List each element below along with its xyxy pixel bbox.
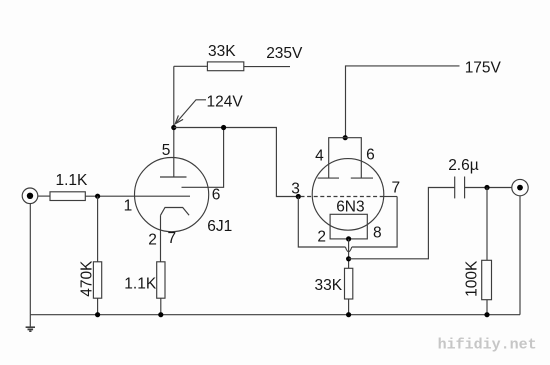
svg-text:6J1: 6J1 bbox=[207, 218, 232, 235]
wire output node down to R6 bbox=[486, 188, 488, 261]
grid line of 6N3 (dashed) bbox=[301, 196, 384, 198]
plate bar of 6J1 (pin 5) bbox=[160, 176, 187, 178]
svg-text:5: 5 bbox=[162, 142, 171, 159]
wire 175V supply bbox=[346, 66, 460, 138]
resistor R5 33K (cathode load) bbox=[345, 268, 353, 299]
node 124V (B+ of 6J1) bbox=[171, 125, 176, 130]
resistor R3 33K (plate load) bbox=[207, 62, 243, 71]
wire input jack to ground rail bbox=[29, 204, 31, 315]
svg-text:100K: 100K bbox=[464, 260, 481, 297]
wire plate loop of 6N3 (pins 4,6) bbox=[329, 138, 362, 178]
svg-text:3: 3 bbox=[291, 181, 300, 198]
svg-text:8: 8 bbox=[373, 225, 382, 242]
node cathode output tap bbox=[346, 256, 351, 261]
svg-text:1.1K: 1.1K bbox=[56, 172, 89, 189]
svg-text:6: 6 bbox=[212, 187, 221, 204]
svg-text:hifidiy.net: hifidiy.net bbox=[438, 337, 537, 354]
svg-text:235V: 235V bbox=[266, 45, 303, 62]
node cathode junction bbox=[346, 236, 351, 241]
wire R3 left to B+ vertical bbox=[174, 65, 208, 67]
wire cathode down through hop to R5 bbox=[348, 239, 350, 268]
output jack J2 bbox=[512, 179, 528, 195]
node grid pin 3 bbox=[296, 194, 301, 199]
svg-text:33K: 33K bbox=[315, 277, 343, 294]
wire grid tie loop bbox=[298, 197, 345, 248]
node R6-rail bbox=[484, 312, 489, 317]
resistor R1 1.1K (grid stopper) bbox=[50, 192, 85, 201]
wire cathode tap to coupling cap bbox=[349, 188, 455, 259]
wire junction to resistor R2 bbox=[97, 196, 99, 262]
resistor R2 470K (grid leak) bbox=[93, 262, 101, 298]
plate bar pin 6 bbox=[351, 177, 373, 179]
node pin6 riser junction bbox=[221, 125, 226, 130]
node 6N3 plate bbox=[343, 135, 348, 140]
svg-text:124V: 124V bbox=[207, 93, 244, 110]
wire R6 to ground rail bbox=[486, 300, 488, 315]
wire input jack to resistor R1 bbox=[38, 195, 50, 197]
wire cathode to resistor R4 bbox=[160, 215, 162, 261]
tube U2 6N3 envelope bbox=[312, 159, 384, 231]
cathode of 6J1 (pins 2,7) bbox=[161, 208, 190, 216]
plate bar pin 4 bbox=[318, 177, 339, 179]
node R4-rail bbox=[158, 312, 163, 317]
svg-text:470K: 470K bbox=[79, 260, 96, 297]
svg-text:2: 2 bbox=[148, 232, 157, 249]
svg-text:33K: 33K bbox=[208, 43, 236, 60]
wire output jack to ground rail bbox=[519, 196, 521, 315]
node grid junction bbox=[95, 194, 100, 199]
svg-text:175V: 175V bbox=[465, 60, 502, 77]
svg-text:2: 2 bbox=[317, 229, 326, 246]
wire ground rail bbox=[30, 314, 520, 316]
node R5-rail bbox=[346, 312, 351, 317]
svg-text:1: 1 bbox=[124, 198, 133, 215]
wire hop (no connection) bbox=[345, 247, 351, 252]
resistor R6 100K (output load) bbox=[482, 260, 492, 299]
node R2-rail bbox=[95, 312, 100, 317]
svg-text:4: 4 bbox=[315, 147, 324, 164]
wire cap to output jack bbox=[465, 187, 512, 189]
wire R4 to ground rail bbox=[160, 298, 162, 315]
svg-text:6N3: 6N3 bbox=[336, 198, 364, 215]
input jack J1 bbox=[22, 188, 38, 204]
svg-text:7: 7 bbox=[168, 230, 177, 247]
node output junction bbox=[484, 185, 489, 190]
svg-text:7: 7 bbox=[392, 179, 401, 196]
wire R5 to ground rail bbox=[348, 299, 350, 315]
cathode rectangle of 6N3 (pins 2,8) bbox=[330, 214, 367, 239]
wire 124V node to 6N3 grid bbox=[174, 128, 298, 197]
wire R3 right to 235V supply bbox=[244, 66, 290, 68]
screen grid bar of 6J1 (pin 6) and wire up to node bbox=[182, 128, 224, 188]
resistor R4 1.1K (cathode) bbox=[157, 262, 165, 298]
capacitor C1 2.6u bbox=[454, 177, 456, 199]
svg-text:1.1K: 1.1K bbox=[124, 276, 157, 293]
svg-text:6: 6 bbox=[366, 146, 375, 163]
svg-text:2.6µ: 2.6µ bbox=[448, 157, 479, 174]
ground bbox=[29, 315, 31, 327]
wire B+ node down to plate pin 5 bbox=[173, 66, 175, 177]
tube U1 6J1 envelope bbox=[135, 158, 209, 232]
wire R1 to grid of 6J1 (pin 1) bbox=[85, 195, 190, 197]
wire R2 to ground rail bbox=[97, 298, 99, 315]
